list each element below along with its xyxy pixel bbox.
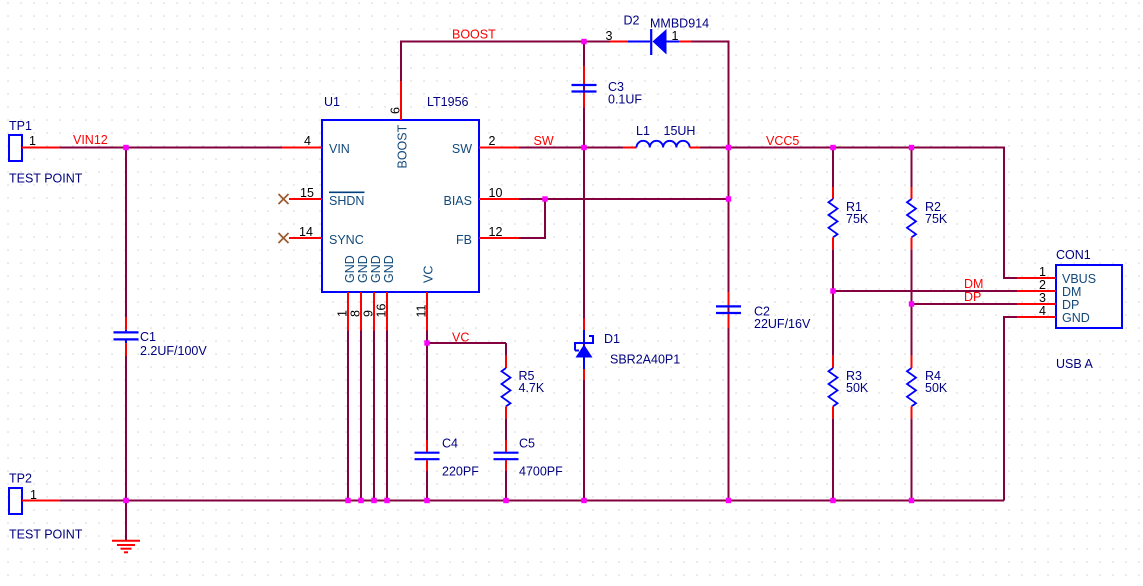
- wire C4 to rail: [426, 471, 428, 501]
- wire VC junction down to C4: [426, 343, 428, 440]
- svg-text:12: 12: [489, 225, 503, 239]
- svg-text:6: 6: [389, 107, 403, 114]
- wire R1 top lead: [832, 147, 834, 188]
- CON1 pin 1 VBUS: [1017, 265, 1096, 286]
- junction BIAS-FB: [542, 196, 547, 201]
- resistor R1: [829, 187, 838, 249]
- U1 pin 14 SYNC: [289, 225, 364, 247]
- svg-text:4700PF: 4700PF: [519, 465, 563, 479]
- wire C1 column bottom: [125, 356, 127, 501]
- wire R4 bottom to rail: [911, 418, 913, 500]
- junction rail at C4: [424, 498, 429, 503]
- junction VCC5 at R2: [909, 145, 914, 150]
- svg-text:DP: DP: [964, 290, 981, 304]
- svg-text:C4: C4: [442, 437, 458, 451]
- wire D2 to right corner down to rail: [691, 42, 729, 501]
- U1 pin 4 VIN: [282, 134, 350, 156]
- svg-text:DM: DM: [1062, 285, 1081, 299]
- svg-text:1: 1: [30, 488, 37, 502]
- svg-text:TP1: TP1: [9, 119, 32, 133]
- svg-text:BOOST: BOOST: [452, 28, 496, 42]
- svg-text:USB A: USB A: [1056, 357, 1093, 371]
- resistor R4: [907, 356, 916, 419]
- svg-text:1: 1: [336, 310, 350, 317]
- wire D1 column: [583, 148, 585, 501]
- test point TP2: [9, 488, 60, 514]
- U1 pin 11 VC: [415, 266, 436, 331]
- svg-text:3: 3: [606, 29, 613, 43]
- wire ground symbol stub: [125, 501, 127, 541]
- svg-text:75K: 75K: [925, 212, 948, 226]
- wire U1 GND pin9 to rail: [373, 331, 375, 501]
- no-ERC cross on SYNC: [279, 233, 289, 243]
- wire R2 top lead: [911, 147, 913, 188]
- U1 pin 16 GND: [375, 255, 397, 330]
- svg-text:1: 1: [1039, 265, 1046, 279]
- svg-text:16: 16: [375, 304, 389, 318]
- capacitor C1: [114, 317, 139, 356]
- junction rail at GND pin9: [371, 498, 376, 503]
- svg-text:220PF: 220PF: [442, 465, 479, 479]
- svg-text:14: 14: [299, 225, 313, 239]
- resistor R3: [829, 356, 838, 419]
- wire DP junction to R4: [911, 304, 913, 356]
- wire VC pin down to junction: [426, 331, 428, 344]
- svg-text:15UH: 15UH: [664, 124, 696, 138]
- wire C1 column top: [125, 147, 127, 318]
- capacitor C3: [572, 66, 597, 108]
- svg-text:MMBD914: MMBD914: [650, 17, 709, 31]
- svg-text:GND: GND: [343, 255, 357, 283]
- junction rail at R3: [830, 498, 835, 503]
- svg-text:D1: D1: [604, 332, 620, 346]
- capacitor C4: [415, 440, 440, 471]
- svg-text:TP2: TP2: [9, 472, 32, 486]
- ground symbol: [112, 541, 140, 553]
- svg-text:D2: D2: [624, 14, 640, 28]
- svg-text:FB: FB: [456, 233, 472, 247]
- inductor L1: [623, 141, 700, 148]
- svg-text:DM: DM: [964, 277, 983, 291]
- wire U1 GND pin1 to rail: [347, 331, 349, 501]
- wire BOOST net from U1 pin6 to D2: [401, 42, 610, 82]
- wire SW to L1: [519, 147, 623, 149]
- svg-text:SHDN: SHDN: [329, 194, 364, 208]
- wire VCC5 down to VBUS pin: [1004, 147, 1017, 279]
- svg-text:4.7K: 4.7K: [519, 381, 545, 395]
- U1 pin 9 GND: [362, 255, 384, 330]
- wire DM net: [833, 290, 1017, 292]
- svg-text:SW: SW: [452, 142, 472, 156]
- svg-text:GND: GND: [1062, 311, 1090, 325]
- wire C5 to rail: [505, 471, 507, 501]
- CON1 pin 3 DP: [1017, 291, 1079, 312]
- connector CON1 body: [1056, 265, 1122, 328]
- svg-text:4: 4: [1039, 304, 1046, 318]
- wire U1 GND pin16 to rail: [386, 331, 388, 501]
- resistor R2: [907, 187, 916, 249]
- svg-text:TEST POINT: TEST POINT: [9, 172, 83, 186]
- svg-text:2.2UF/100V: 2.2UF/100V: [140, 344, 207, 358]
- svg-text:C5: C5: [519, 437, 535, 451]
- svg-text:LT1956: LT1956: [427, 95, 469, 109]
- capacitor C2: [716, 292, 741, 328]
- wire VIN12 horizontal TP1 to U1: [60, 147, 282, 149]
- svg-text:3: 3: [1039, 291, 1046, 305]
- svg-text:GND: GND: [356, 255, 370, 283]
- U1 pin 1 GND: [336, 255, 358, 330]
- test point TP1: [9, 135, 60, 161]
- svg-text:BIAS: BIAS: [444, 194, 473, 208]
- svg-text:GND: GND: [369, 255, 383, 283]
- svg-text:1: 1: [29, 134, 36, 148]
- wire FB jog: [519, 199, 545, 238]
- svg-text:0.1UF: 0.1UF: [608, 93, 642, 107]
- wire DP net: [912, 303, 1018, 305]
- junction VIN12: [123, 145, 128, 150]
- svg-text:SBR2A40P1: SBR2A40P1: [610, 353, 680, 367]
- capacitor C5: [494, 440, 519, 471]
- wire R3 bottom to rail: [832, 418, 834, 500]
- junction BOOST: [581, 39, 586, 44]
- junction rail at C5: [503, 498, 508, 503]
- no-ERC cross on SHDN: [279, 194, 289, 204]
- diode D1 SBR2A40P1 schottky: [575, 318, 593, 380]
- svg-text:50K: 50K: [925, 381, 948, 395]
- svg-text:4: 4: [304, 134, 311, 148]
- junction SW at C3 column: [581, 145, 586, 150]
- wire R5 to C5: [505, 418, 507, 440]
- svg-text:VC: VC: [422, 266, 436, 283]
- svg-text:SW: SW: [534, 134, 554, 148]
- U1 pin 8 GND: [349, 255, 371, 330]
- wire C3 column: [583, 42, 585, 148]
- svg-text:VIN: VIN: [329, 142, 350, 156]
- junction rail at C2: [726, 498, 731, 503]
- junction rail at GND pin16: [384, 498, 389, 503]
- svg-text:BOOST: BOOST: [396, 124, 410, 168]
- svg-text:C1: C1: [140, 330, 156, 344]
- svg-text:SYNC: SYNC: [329, 233, 364, 247]
- wire R2 bottom to DP junction: [911, 249, 913, 304]
- wire CON1 GND down to rail: [1004, 317, 1017, 501]
- svg-text:VCC5: VCC5: [766, 134, 799, 148]
- U1 pin 10 BIAS: [444, 186, 520, 208]
- junction VCC5 at R1: [830, 145, 835, 150]
- wire R5 top lead: [505, 343, 507, 356]
- svg-text:GND: GND: [382, 255, 396, 283]
- svg-text:75K: 75K: [846, 212, 869, 226]
- op-amp U1 LT1956 body: [322, 120, 479, 292]
- svg-text:8: 8: [349, 310, 363, 317]
- junction DP at R2 column: [909, 301, 914, 306]
- svg-text:1: 1: [672, 29, 679, 43]
- svg-text:L1: L1: [636, 124, 650, 138]
- svg-text:VIN12: VIN12: [73, 133, 108, 147]
- svg-text:15: 15: [300, 186, 314, 200]
- wire VC junction to R5: [426, 342, 506, 344]
- junction rail at C1: [123, 498, 128, 503]
- wire R1 bottom to DM junction: [832, 249, 834, 291]
- junction DM at R1 column: [830, 288, 835, 293]
- U1 pin 6 BOOST: [389, 81, 410, 169]
- junction rail at D1: [581, 498, 586, 503]
- svg-text:11: 11: [415, 304, 429, 317]
- svg-text:9: 9: [362, 310, 376, 317]
- wire BIAS: [519, 198, 729, 200]
- svg-text:U1: U1: [324, 95, 340, 109]
- U1 pin 2 SW: [452, 134, 519, 156]
- svg-text:VBUS: VBUS: [1062, 272, 1096, 286]
- wire ground rail: [60, 500, 1004, 502]
- junction VC: [424, 340, 429, 345]
- wire VCC5 L1 to CON1 corner: [698, 147, 1004, 149]
- U1 pin 15 SHDN: [289, 186, 365, 208]
- svg-text:DP: DP: [1062, 298, 1079, 312]
- wire U1 GND pin8 to rail: [360, 331, 362, 501]
- junction rail at GND pin8: [358, 498, 363, 503]
- svg-text:2: 2: [1039, 278, 1046, 292]
- junction rail at GND pin1: [345, 498, 350, 503]
- svg-text:VC: VC: [452, 331, 469, 345]
- junction BIAS at C2 column: [726, 196, 731, 201]
- CON1 pin 2 DM: [1017, 278, 1081, 299]
- svg-text:22UF/16V: 22UF/16V: [754, 317, 811, 331]
- svg-text:10: 10: [489, 186, 503, 200]
- svg-text:CON1: CON1: [1056, 248, 1091, 262]
- svg-text:2: 2: [489, 134, 496, 148]
- resistor R5: [502, 356, 511, 419]
- diode D2 MMBD914: [610, 29, 691, 55]
- junction VCC5 at C2 column: [726, 145, 731, 150]
- junction rail at R4: [909, 498, 914, 503]
- CON1 pin 4 GND: [1017, 304, 1090, 325]
- wire DM junction to R3: [832, 291, 834, 356]
- svg-text:TEST POINT: TEST POINT: [9, 528, 83, 542]
- svg-text:50K: 50K: [846, 381, 869, 395]
- U1 pin 12 FB: [456, 225, 519, 247]
